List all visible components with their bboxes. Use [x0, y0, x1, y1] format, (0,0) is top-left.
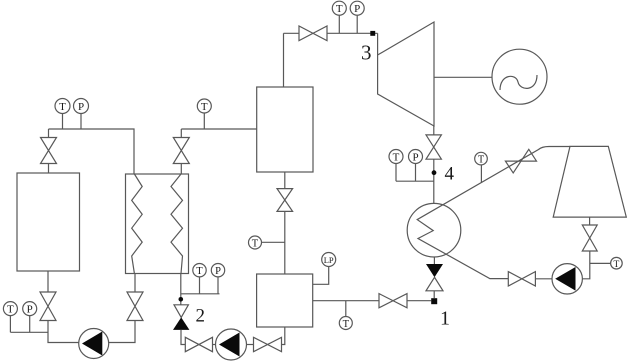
svg-text:P: P [215, 266, 221, 277]
valve V8 [277, 189, 293, 212]
svg-text:T: T [196, 266, 203, 277]
wire: to pump P3 [582, 251, 589, 279]
vessel B1 (left tank) [17, 173, 80, 271]
instrument T9 [475, 152, 488, 183]
valve V2 [173, 138, 189, 164]
wire: vessel B1 drain to pump P1 [48, 271, 79, 343]
valve V7 [254, 337, 282, 351]
svg-text:T: T [59, 101, 66, 113]
svg-text:T: T [336, 3, 343, 15]
svg-text:P: P [412, 152, 418, 164]
steam generator B2 (large box) [257, 87, 313, 172]
generator G1 [492, 49, 547, 104]
instrument T3 [3, 302, 17, 333]
HX1 coil right [171, 174, 183, 274]
wire: valve V2 stems [180, 129, 182, 174]
wire: turbine shaft [434, 76, 492, 78]
valve V14 [582, 225, 597, 251]
valve V15 [508, 272, 535, 286]
instrument T5 [249, 236, 285, 250]
svg-text:2: 2 [196, 306, 206, 327]
wire: turbine inlet [377, 33, 379, 55]
valve V3 [40, 292, 56, 321]
instrument P2 [23, 302, 37, 333]
wire: turbine exhaust [433, 126, 435, 135]
node 1 [431, 298, 437, 304]
turbine TU1 [378, 22, 434, 126]
instrument LP1 [313, 253, 336, 285]
svg-text:T: T [393, 152, 400, 164]
instrument P3 [211, 264, 224, 278]
instrument T7 [389, 150, 403, 182]
valve V10 (top half filled) [426, 264, 443, 277]
HX1 coil left [132, 174, 143, 274]
wire: vessel B1 top to valve V1 [48, 129, 50, 173]
wire: cooling tower stem [589, 217, 591, 225]
instrument T4 [193, 264, 206, 278]
svg-text:T: T [201, 101, 208, 113]
wire: to economizer [282, 327, 285, 345]
wire: valve V10 to condenser [433, 257, 435, 264]
instrument T8 [332, 1, 346, 33]
wire [213, 344, 216, 346]
wire: node 1 up to valve V10 [433, 291, 435, 298]
wire: economizer to steam generator [284, 172, 286, 274]
condenser cooling tube [417, 147, 570, 279]
node 3 [370, 31, 375, 36]
valve V4 [127, 292, 143, 321]
svg-text:T: T [478, 154, 484, 165]
instrument P5 [350, 1, 364, 33]
svg-text:P: P [354, 3, 360, 15]
wire: instrument branch TP [181, 277, 220, 294]
wire [247, 344, 254, 346]
economizer B3 (small box) [257, 274, 313, 327]
svg-text:P: P [78, 101, 84, 113]
valve V11 [426, 135, 441, 159]
svg-text:T: T [252, 239, 259, 250]
wire: steam generator riser [283, 33, 285, 87]
instrument T2 [197, 99, 211, 129]
instrument T1 [55, 99, 70, 130]
valve V1 [41, 138, 57, 164]
heat exchanger HX1 (box) [126, 174, 189, 274]
instrument P1 [74, 99, 89, 130]
wire: valve V5 to valve V6 [181, 330, 185, 345]
svg-text:P: P [27, 304, 33, 316]
node 2 junction dot [179, 297, 184, 302]
pump P1 [79, 329, 109, 359]
svg-text:LP: LP [324, 255, 334, 265]
valve V5 (expansion valve, bottom half filled) [174, 305, 188, 318]
wire: economizer outlet to node 1 [313, 300, 432, 302]
instrument T6 [339, 301, 352, 330]
svg-text:1: 1 [440, 308, 450, 330]
condenser K1 (circle) [407, 203, 461, 257]
svg-text:T: T [7, 304, 14, 316]
wire: header to steam generator [181, 128, 256, 130]
wire: pump P1 to valve V4 [109, 274, 135, 343]
wire: steam line [284, 32, 378, 34]
instrument P4 [409, 150, 423, 182]
svg-text:T: T [343, 319, 350, 330]
svg-text:T: T [613, 260, 619, 270]
wire: HX1 bottom right branch [180, 274, 182, 305]
generator sine symbol [500, 75, 537, 90]
svg-text:3: 3 [361, 41, 372, 65]
wire: instrument branch [10, 331, 48, 333]
instrument T10 [590, 257, 622, 269]
valve V12 [299, 26, 327, 41]
svg-text:4: 4 [445, 164, 455, 185]
valve V9 [379, 294, 407, 308]
valve V13 (diagonal) [505, 149, 536, 173]
node 4 [432, 170, 437, 175]
wire: header line to HX inlet [49, 129, 135, 174]
pump P3 [552, 264, 582, 294]
wire: instrument branch to node 4 [396, 180, 434, 182]
wire: condenser inlet from valve V11 [433, 159, 435, 203]
pump P2 [216, 329, 247, 360]
wire [535, 278, 552, 280]
cooling tower CT1 [553, 146, 626, 217]
valve V6 [185, 337, 212, 351]
